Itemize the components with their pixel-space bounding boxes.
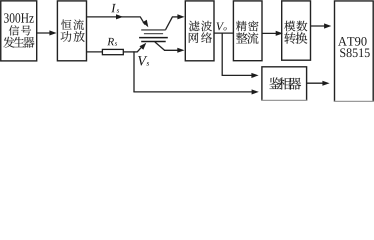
label jian-xiang-qi (phase detector)	[269, 77, 301, 89]
block AT90S8515 MCU box	[335, 1, 374, 102]
label fa-sheng-qi (generator)	[3, 37, 34, 48]
sensor electrode long middle	[139, 37, 168, 39]
wire Vo branch to phase detector	[222, 74, 256, 76]
label mo-shu (A/D)	[284, 21, 307, 32]
circuit block diagram: conductivity measurement system	[0, 0, 374, 103]
wire A/D converter to MCU	[311, 25, 329, 27]
resistor Rs	[102, 49, 123, 54]
wire generator to amplifier	[37, 32, 54, 34]
block filter network box	[185, 1, 214, 61]
label wang-luo (network)	[189, 32, 212, 43]
label zhuan-huan (convert)	[284, 32, 307, 43]
label lv-bo (filter)	[189, 21, 212, 32]
block precision rectifier box	[233, 1, 262, 61]
wire Rs lead from amplifier	[87, 51, 104, 53]
label 300Hz	[4, 13, 34, 22]
label gong-fang (power amp)	[60, 31, 84, 42]
label zheng-liu (rectifier)	[236, 32, 259, 43]
label heng-liu (constant current)	[61, 19, 84, 29]
block 300Hz signal generator box	[1, 1, 37, 61]
label jing-mi (precision)	[236, 21, 259, 32]
wire sensor top-left diagonal lead	[140, 17, 145, 25]
wire sensor top-right diagonal lead	[166, 17, 173, 30]
label Vs	[138, 56, 147, 66]
sensor electrode plate bottom	[141, 41, 166, 43]
block phase detector box	[262, 67, 307, 101]
node Vs junction vertical wire down	[133, 51, 135, 92]
wire Vo: filter network to precision rectifier	[214, 32, 233, 34]
label S8515	[340, 48, 370, 57]
wire to filter network top input	[172, 16, 181, 18]
label Is	[111, 4, 116, 12]
wire to filter network bottom input	[164, 49, 181, 51]
sensor electrode plate top	[141, 29, 166, 31]
sensor electrode short middle	[144, 33, 163, 35]
wire resistor to Vs junction	[123, 51, 137, 53]
wire Is: amplifier to sensor top-left lead	[87, 16, 141, 18]
node Vo branch vertical wire down	[221, 33, 223, 75]
label Vo	[216, 22, 224, 30]
wire rectifier to A/D converter	[262, 32, 280, 34]
wire phase detector to MCU	[307, 82, 327, 84]
block A/D converter box	[282, 1, 311, 60]
label xin-hao (signal)	[9, 25, 31, 35]
wire Vs to phase detector	[133, 91, 255, 93]
label AT90	[338, 37, 367, 46]
block constant-current amplifier box	[57, 1, 86, 61]
wire sensor bottom-left diagonal lead	[137, 46, 142, 52]
label Rs	[107, 38, 114, 45]
wire sensor bottom-right diagonal lead	[155, 42, 165, 50]
